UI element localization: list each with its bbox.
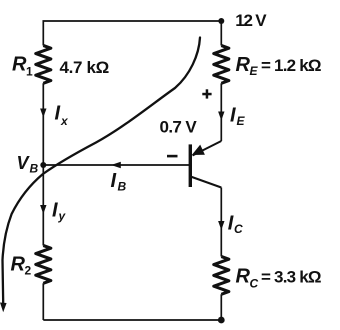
resistor RC [214,257,229,295]
transistor Q1 emitter arrowhead [192,145,205,155]
svg-text:I: I [52,200,58,222]
svg-text:0.7 V: 0.7 V [160,117,198,136]
arrow IE [218,112,224,121]
svg-text:2: 2 [25,264,32,278]
wire left branch bottom [42,283,44,320]
annotation S-curve [3,38,201,304]
wire base [43,164,189,166]
wire top rail [43,21,221,46]
svg-text:R: R [236,54,251,76]
wire collector vertical [220,188,222,257]
arrow IB [111,162,121,168]
svg-text:C: C [250,276,259,290]
wire collector diagonal [191,177,222,188]
svg-text:y: y [58,209,67,223]
wire left branch middle [42,83,44,245]
resistor R2 [36,246,51,284]
svg-text:I: I [230,105,236,127]
svg-text:= 3.3 kΩ: = 3.3 kΩ [261,268,321,287]
arrow IC [218,221,224,230]
svg-text:1: 1 [26,65,33,79]
wire emitter diagonal [193,141,222,156]
svg-text:R: R [12,53,27,75]
node dot top 12V [218,18,224,24]
node dot VB [40,162,46,168]
svg-text:C: C [234,222,243,236]
arrow Iy [40,205,46,214]
node dot bottom [218,317,225,324]
svg-text:R: R [236,266,251,288]
label minus sign [167,155,178,158]
svg-text:I: I [228,213,234,235]
transistor Q1 base bar [189,144,192,187]
svg-text:4.7 kΩ: 4.7 kΩ [60,58,110,77]
svg-text:12 V: 12 V [235,11,267,30]
svg-text:I: I [111,170,117,192]
label plus sign [202,89,211,98]
svg-text:E: E [237,114,246,128]
svg-text:I: I [55,103,61,125]
arrow Ix [40,109,46,118]
resistor RE [214,46,229,84]
svg-text:B: B [118,180,127,194]
svg-text:R: R [11,254,26,276]
svg-text:B: B [30,162,39,176]
wire collector to bottom [220,294,222,320]
svg-text:E: E [250,64,259,78]
svg-text:x: x [60,114,69,128]
wire emitter vertical [220,83,222,141]
svg-text:V: V [17,153,31,173]
svg-text:= 1.2 kΩ: = 1.2 kΩ [261,56,321,75]
annotation S-curve arrowhead [0,303,7,313]
wire bottom rail [43,319,221,321]
resistor R1 [36,46,51,84]
